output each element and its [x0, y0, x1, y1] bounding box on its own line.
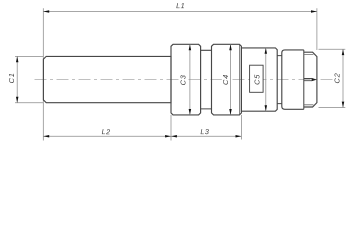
wire: L3 extension x=241.4 (bottom)	[240, 115, 242, 140]
bore (collet seat)	[304, 79, 312, 81]
wire: C2 dimension line	[342, 49, 344, 107]
wire: L1 left extension line x=43.3	[42, 8, 44, 140]
svg-text:C4: C4	[221, 74, 230, 85]
wire: neck between C3 and C4	[201, 50, 212, 109]
body C5 section	[241, 48, 277, 111]
wire: C4 right face chamfer line	[238, 45, 240, 115]
label C5 frame box	[250, 65, 264, 92]
wire: C3 dimension line	[189, 44, 191, 115]
svg-text:C3: C3	[178, 74, 187, 85]
svg-text:L1: L1	[176, 1, 185, 10]
wire: L1 dimension line	[43, 11, 317, 13]
wire: C5 dimension line	[265, 48, 267, 111]
wire: L1 right extension line x=316.9	[316, 8, 318, 50]
flange C4	[212, 44, 242, 115]
wire: L2+L3 dimension line	[43, 135, 241, 137]
nut nose	[304, 52, 317, 107]
svg-text:L3: L3	[200, 127, 209, 136]
wire: C1 extension lines	[15, 55, 43, 57]
svg-text:C2: C2	[333, 72, 342, 83]
wire: C4 dimension line	[230, 44, 232, 115]
shank (C1 cylinder)	[43, 56, 171, 102]
wire: C2 extension lines	[319, 48, 346, 50]
label C3	[179, 71, 187, 89]
collet chuck dimension drawing	[0, 0, 360, 147]
wire: C1 dimension line	[16, 56, 18, 102]
wire: neck between body and nut	[277, 56, 282, 104]
wire: nose chamfer lines	[304, 54, 314, 104]
wire: L2/L3 extension x=171 (bottom)	[170, 115, 172, 141]
wire: nut step face	[303, 50, 305, 109]
svg-text:C1: C1	[7, 72, 16, 83]
flange C3	[171, 44, 201, 115]
centerline (axis)	[35, 79, 334, 81]
nut body (clamping nut)	[282, 50, 304, 109]
label C4	[222, 71, 230, 88]
svg-text:C5: C5	[252, 74, 261, 85]
svg-text:L2: L2	[102, 127, 111, 136]
